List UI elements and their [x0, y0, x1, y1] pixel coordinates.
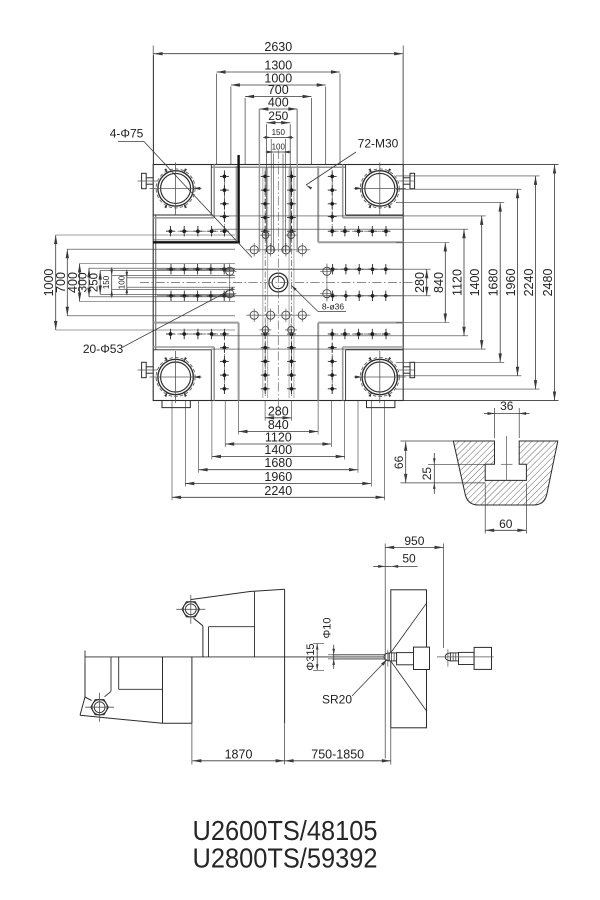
svg-text:280: 280 — [413, 272, 427, 293]
svg-text:300: 300 — [76, 272, 90, 292]
svg-text:Φ315: Φ315 — [305, 643, 317, 670]
svg-text:4-Φ75: 4-Φ75 — [110, 127, 144, 141]
svg-text:Φ10: Φ10 — [322, 617, 334, 638]
svg-text:1400: 1400 — [264, 443, 292, 457]
svg-text:2480: 2480 — [541, 269, 555, 297]
svg-text:840: 840 — [432, 272, 446, 293]
svg-text:1680: 1680 — [487, 269, 501, 297]
svg-text:280: 280 — [268, 404, 289, 418]
svg-text:750-1850: 750-1850 — [311, 747, 364, 761]
svg-text:1300: 1300 — [264, 59, 292, 73]
svg-text:50: 50 — [402, 552, 416, 566]
svg-text:U2800TS/59392: U2800TS/59392 — [193, 843, 378, 874]
svg-text:2240: 2240 — [522, 269, 536, 297]
svg-text:20-Φ53: 20-Φ53 — [83, 342, 124, 356]
svg-text:25: 25 — [420, 467, 434, 481]
svg-text:150: 150 — [102, 275, 111, 289]
svg-text:SR20: SR20 — [322, 693, 352, 707]
svg-text:250: 250 — [89, 273, 101, 292]
svg-text:950: 950 — [404, 534, 424, 548]
svg-text:U2600TS/48105: U2600TS/48105 — [193, 815, 378, 846]
svg-text:66: 66 — [392, 455, 406, 469]
svg-text:1120: 1120 — [451, 269, 465, 296]
svg-text:8-ø36: 8-ø36 — [322, 302, 344, 312]
svg-text:2240: 2240 — [264, 484, 292, 498]
svg-text:1960: 1960 — [264, 470, 292, 484]
svg-text:1400: 1400 — [468, 269, 482, 297]
svg-text:2630: 2630 — [264, 40, 292, 54]
svg-text:1960: 1960 — [504, 269, 518, 297]
svg-text:1680: 1680 — [264, 456, 292, 470]
svg-text:36: 36 — [500, 399, 514, 413]
svg-text:100: 100 — [117, 275, 126, 289]
svg-text:60: 60 — [499, 517, 513, 531]
svg-text:250: 250 — [268, 109, 288, 123]
svg-text:400: 400 — [268, 96, 289, 110]
svg-text:150: 150 — [272, 128, 286, 137]
svg-text:72-M30: 72-M30 — [358, 137, 399, 151]
svg-text:1870: 1870 — [225, 747, 253, 761]
svg-text:100: 100 — [272, 143, 286, 152]
